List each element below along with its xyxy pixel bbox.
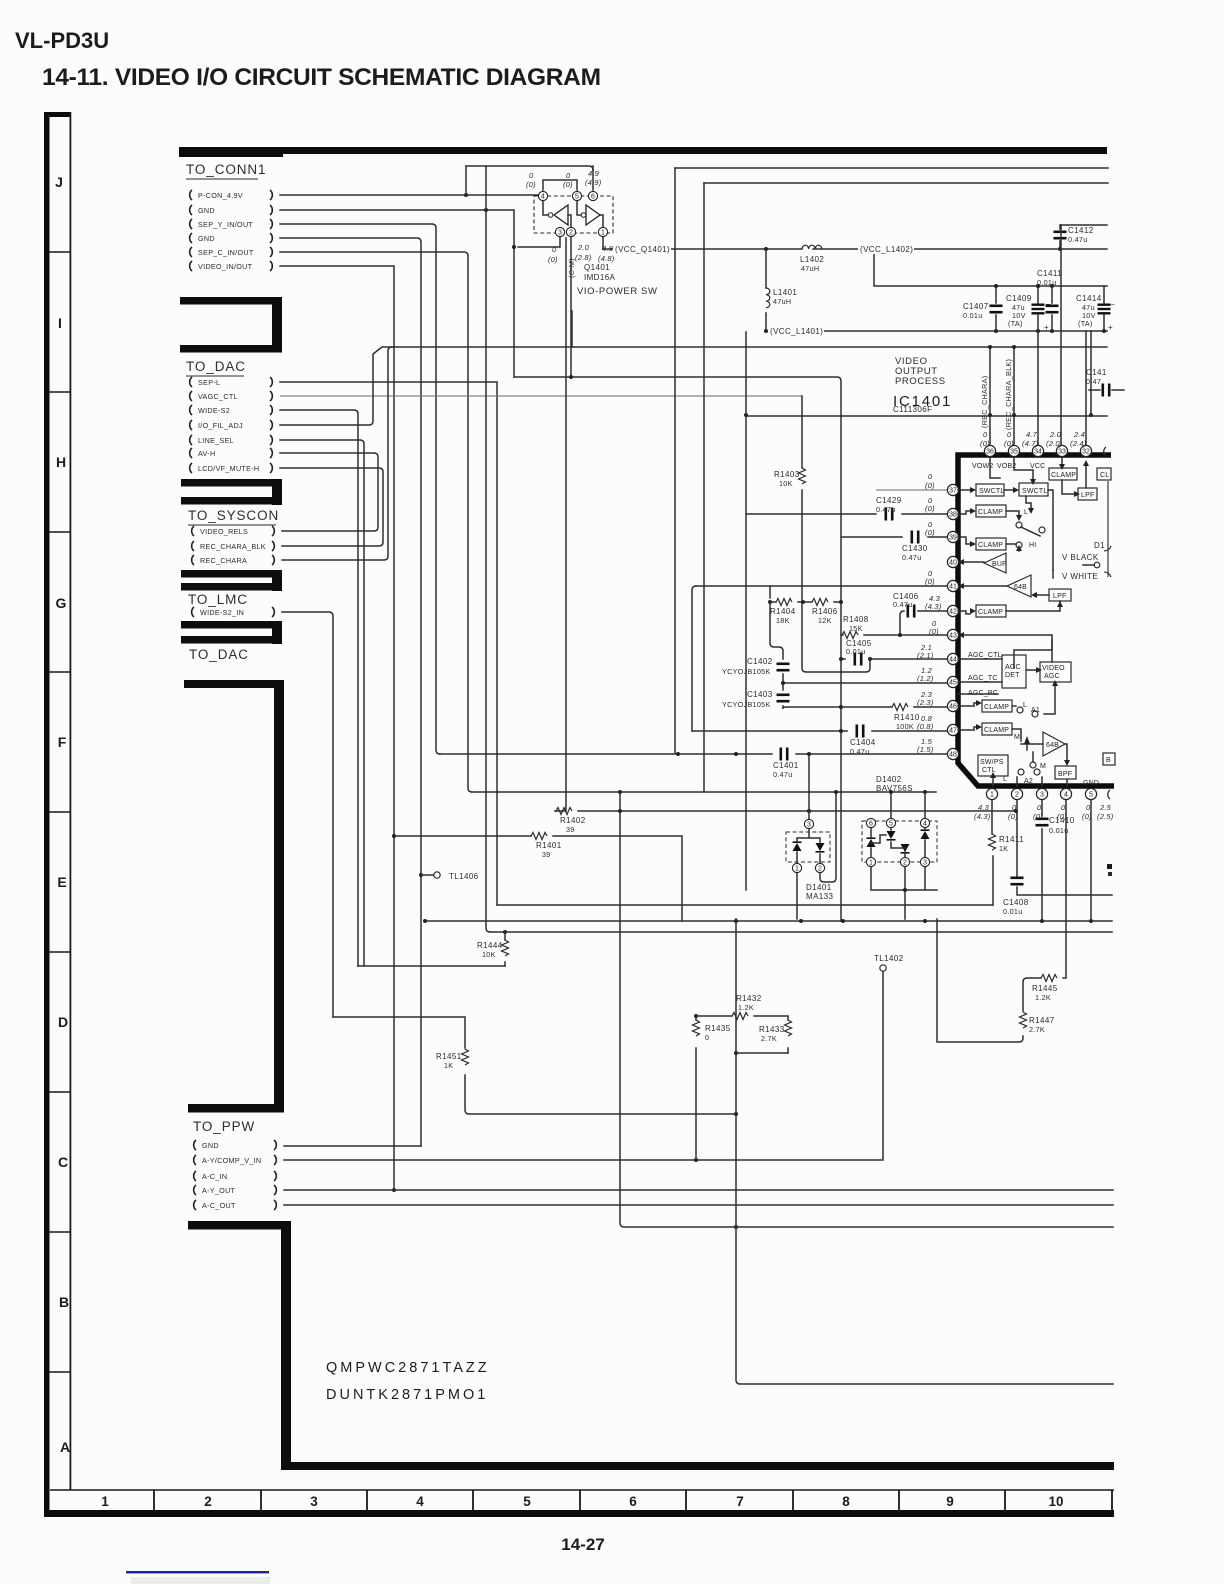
R1401 row y836 <box>392 834 682 921</box>
svg-text:TO_DAC: TO_DAC <box>189 647 249 662</box>
svg-text:(C-M): (C-M) <box>567 258 576 278</box>
svg-text:_: _ <box>1045 296 1051 305</box>
svg-text:3: 3 <box>923 860 927 867</box>
svg-text:32: 32 <box>1082 449 1090 456</box>
resistor R1432 <box>732 994 762 1020</box>
svg-text:4: 4 <box>416 1494 424 1509</box>
svg-text:LPF: LPF <box>1053 593 1066 600</box>
svg-text:SWCTL: SWCTL <box>1022 488 1048 495</box>
wire AV-H to VIDEO_RELS <box>280 453 378 531</box>
R1432 R1433 net <box>696 1016 788 1053</box>
svg-text:3: 3 <box>807 822 811 829</box>
wire long rail y377 <box>514 377 841 921</box>
svg-text:R1451: R1451 <box>436 1052 462 1061</box>
svg-text:R1445: R1445 <box>1032 984 1058 993</box>
svg-text:(0): (0) <box>925 528 935 537</box>
resistor R1451 <box>436 1049 469 1070</box>
svg-text:L: L <box>1024 509 1028 516</box>
left grid ruler column <box>44 112 71 1517</box>
svg-text:A1: A1 <box>1031 707 1040 714</box>
bottom area switches <box>992 778 994 786</box>
pin VIDEO_RELS <box>192 526 275 536</box>
svg-text:0: 0 <box>529 171 534 180</box>
svg-text:2.0: 2.0 <box>1049 430 1062 439</box>
pin LCD/VF_MUTE-H <box>190 463 273 473</box>
svg-text:0: 0 <box>928 472 933 481</box>
svg-text:0.47u: 0.47u <box>902 553 922 562</box>
svg-text:D1: D1 <box>1094 541 1105 550</box>
svg-text:C1402: C1402 <box>747 657 773 666</box>
svg-text:4: 4 <box>923 821 927 828</box>
svg-text:L1402: L1402 <box>800 255 824 264</box>
box partial right bottom <box>1103 753 1115 765</box>
capacitor C1411 <box>1037 269 1062 331</box>
svg-text:45: 45 <box>949 680 957 687</box>
svg-text:CLAMP: CLAMP <box>978 542 1003 549</box>
resistor R1404 <box>770 599 796 626</box>
section label TO_SYSCON <box>188 508 279 525</box>
svg-text:9: 9 <box>946 1494 954 1509</box>
svg-text:5: 5 <box>575 194 579 201</box>
capacitor C1410 <box>1036 816 1075 835</box>
wire GND2 down x436 <box>280 252 472 792</box>
resistor R1447 <box>1020 1012 1055 1034</box>
svg-text:L1401: L1401 <box>773 288 797 297</box>
svg-text:39: 39 <box>566 825 575 834</box>
svg-text:47: 47 <box>949 728 957 735</box>
svg-text:(0): (0) <box>548 255 558 264</box>
pin VAGC_CTL <box>190 391 273 401</box>
long internal vertical <box>1048 490 1053 570</box>
svg-text:+: + <box>1044 323 1049 332</box>
row y731 pin47 net <box>692 729 948 733</box>
wire stub from y166 row to P-CON net <box>465 166 467 195</box>
svg-text:A-Y_OUT: A-Y_OUT <box>202 1186 236 1195</box>
wire WIDE-S2 down x358 <box>280 410 358 966</box>
section label TO_DAC <box>186 359 246 376</box>
svg-text:VIDEO: VIDEO <box>1042 665 1065 672</box>
vertical x620 down to bottom elbow <box>620 792 1113 1229</box>
svg-text:D1402: D1402 <box>876 775 902 784</box>
svg-text:6: 6 <box>869 821 873 828</box>
row y611 pin42 net with C1406 <box>898 611 948 637</box>
svg-text:2.0: 2.0 <box>577 243 590 252</box>
svg-text:GND: GND <box>1083 780 1099 787</box>
svg-text:TO_PPW: TO_PPW <box>193 1119 255 1134</box>
svg-text:SEP-L: SEP-L <box>198 378 220 387</box>
row y921 long <box>423 919 1112 923</box>
svg-text:0.01u: 0.01u <box>1003 907 1023 916</box>
wire vertical x1091 <box>1090 331 1092 415</box>
svg-text:CLAMP: CLAMP <box>984 727 1009 734</box>
svg-text:5: 5 <box>889 821 893 828</box>
row y586 pin41 net <box>696 585 948 587</box>
svg-text:LPF: LPF <box>1081 492 1094 499</box>
transistor pack Q1401 IMD16A VIO-POWER SW <box>466 166 658 379</box>
svg-text:DUNTK2871PMO1: DUNTK2871PMO1 <box>326 1387 488 1403</box>
wire LINE_SEL down x364 <box>280 440 364 966</box>
svg-text:100K: 100K <box>896 722 914 731</box>
TL1402 test point <box>880 965 886 971</box>
svg-text:43: 43 <box>949 633 957 640</box>
wire SEP_C_IN/OUT long vertical x421 <box>280 238 423 1146</box>
svg-text:46: 46 <box>949 704 957 711</box>
pin2 C1408 net <box>1017 794 1112 895</box>
svg-text:(REC_CHARA): (REC_CHARA) <box>980 376 989 428</box>
capacitor C1429 <box>876 496 902 521</box>
svg-text:(0): (0) <box>1057 812 1067 821</box>
svg-text:BUF: BUF <box>992 561 1007 568</box>
CLAMP4 to LPF2 bottom <box>1006 607 1060 611</box>
row y659 pin44 net with C1405 <box>802 490 948 672</box>
svg-text:G: G <box>56 595 67 611</box>
svg-text:D1401: D1401 <box>806 883 832 892</box>
svg-text:0: 0 <box>1037 803 1042 812</box>
svg-text:(2.8): (2.8) <box>575 253 592 262</box>
pin SEP_Y_IN/OUT <box>190 219 273 229</box>
svg-text:14-27: 14-27 <box>561 1535 604 1554</box>
resistor R1445 <box>1032 975 1058 1003</box>
svg-text:TO_SYSCON: TO_SYSCON <box>188 508 279 523</box>
box CLAMP 5 <box>982 700 1012 712</box>
svg-text:TO_LMC: TO_LMC <box>188 592 248 607</box>
svg-text:B: B <box>59 1294 69 1310</box>
box CLAMP 6 <box>982 723 1012 735</box>
svg-text:_: _ <box>1109 296 1115 305</box>
svg-text:C1412: C1412 <box>1068 226 1094 235</box>
wire I/O_FIL_ADJ jog to row y347 <box>280 347 1107 425</box>
svg-text:2.7K: 2.7K <box>761 1034 777 1043</box>
VIDEO OUTPUT PROCESS title <box>893 356 952 414</box>
svg-text:4.7: 4.7 <box>1026 430 1038 439</box>
svg-text:C1430: C1430 <box>902 544 928 553</box>
svg-text:C1411: C1411 <box>1037 269 1062 278</box>
wire rail y286 <box>874 249 1107 288</box>
svg-text:(REC_CHARA_BLK): (REC_CHARA_BLK) <box>1004 359 1013 430</box>
svg-text:3: 3 <box>558 230 562 237</box>
pin GND <box>190 233 273 243</box>
R1402 row y811 <box>555 238 1018 813</box>
svg-text:0: 0 <box>983 430 988 439</box>
IC1401 bottom pins 1-5 <box>974 788 1114 821</box>
svg-text:(0): (0) <box>1082 812 1092 821</box>
diode pair D1401 MA133 <box>786 819 833 901</box>
rotated net label (REC_CHARA) <box>980 345 992 446</box>
svg-text:(4.7): (4.7) <box>1022 439 1039 448</box>
svg-text:64B: 64B <box>1014 584 1027 591</box>
svg-text:48: 48 <box>949 752 957 759</box>
svg-text:(0): (0) <box>526 180 536 189</box>
box CLAMP 4 <box>976 605 1006 617</box>
svg-text:C1408: C1408 <box>1003 898 1029 907</box>
svg-text:TL1402: TL1402 <box>874 954 904 963</box>
row y514 C1429 pin38 net <box>746 513 948 515</box>
svg-text:0: 0 <box>566 171 571 180</box>
resistor R1433 <box>759 1020 792 1043</box>
CLAMP to LPF1 <box>1062 480 1074 494</box>
AGC chain <box>958 659 1036 694</box>
row y932 <box>490 930 1112 934</box>
svg-text:0.01u: 0.01u <box>1049 826 1069 835</box>
svg-text:SW/PS: SW/PS <box>980 759 1004 766</box>
svg-text:(2.0): (2.0) <box>1046 439 1063 448</box>
row y682 pin45 net <box>783 682 948 684</box>
svg-text:(0.8): (0.8) <box>917 722 934 731</box>
svg-text:AGC: AGC <box>1005 664 1021 671</box>
svg-text:MA133: MA133 <box>806 892 833 901</box>
row y966 R1444 bottom <box>358 965 505 967</box>
svg-text:(0): (0) <box>1033 812 1043 821</box>
svg-text:6: 6 <box>629 1494 637 1509</box>
svg-text:(2.1): (2.1) <box>917 651 934 660</box>
svg-text:+: + <box>1108 323 1113 332</box>
wire VIDEO_IN/OUT long vertical x394 <box>280 266 396 1192</box>
svg-text:1: 1 <box>990 792 994 799</box>
resistor R1435 <box>693 1020 731 1042</box>
svg-text:BPF: BPF <box>1058 771 1072 778</box>
wire SEP-L down x497 <box>280 382 497 905</box>
box SWCTL 2 <box>1019 483 1048 496</box>
svg-text:4.3: 4.3 <box>978 803 990 812</box>
svg-text:VIDEO_IN/OUT: VIDEO_IN/OUT <box>198 262 253 271</box>
svg-text:R1435: R1435 <box>705 1024 731 1033</box>
svg-text:C1409: C1409 <box>1006 294 1032 303</box>
svg-text:(VCC_Q1401): (VCC_Q1401) <box>615 245 670 254</box>
svg-text:CLAMP: CLAMP <box>1051 472 1076 479</box>
pin AV-H <box>190 448 273 458</box>
svg-text:(VCC_L1402): (VCC_L1402) <box>860 245 913 254</box>
wire rail y415 <box>744 413 1107 417</box>
svg-text:IMD16A: IMD16A <box>584 273 616 282</box>
top pin verticals 34 33 32 <box>1038 225 1086 446</box>
svg-text:VL-PD3U: VL-PD3U <box>15 28 109 53</box>
resistor R1401 <box>531 833 562 860</box>
svg-text:I/O_FIL_ADJ: I/O_FIL_ADJ <box>198 421 243 430</box>
svg-text:E: E <box>57 874 66 890</box>
svg-text:0.47u: 0.47u <box>876 505 896 514</box>
svg-text:0: 0 <box>1061 803 1066 812</box>
connector bracket 3 (below TO_SYSCON) <box>181 570 282 591</box>
TL1406 stub <box>421 872 440 878</box>
svg-text:V WHITE: V WHITE <box>1062 572 1098 581</box>
svg-text:10: 10 <box>1048 1494 1063 1509</box>
wire A-C_OUT to right edge <box>284 1204 1113 1206</box>
svg-text:5: 5 <box>523 1494 531 1509</box>
svg-text:38: 38 <box>949 512 957 519</box>
svg-text:(0): (0) <box>563 180 573 189</box>
svg-text:GND: GND <box>202 1141 219 1150</box>
svg-text:R1403: R1403 <box>774 470 800 479</box>
row y635 pin43 net with R1408 <box>841 634 948 636</box>
pin REC_CHARA <box>192 555 275 565</box>
svg-text:R1433: R1433 <box>759 1025 785 1034</box>
svg-text:(0): (0) <box>925 504 935 513</box>
svg-text:(1.5): (1.5) <box>917 745 934 754</box>
pin1 R1411 net <box>992 794 993 905</box>
svg-text:B: B <box>1106 757 1111 764</box>
svg-text:TO_DAC: TO_DAC <box>186 359 246 374</box>
section label TO_CONN1 <box>186 162 266 179</box>
svg-text:R1411: R1411 <box>999 835 1024 844</box>
IC1401 internals <box>958 458 1115 787</box>
resistor R1403 <box>774 468 806 488</box>
connector bracket 1 (below TO_CONN1) <box>180 297 282 353</box>
svg-text:1: 1 <box>101 1494 109 1509</box>
svg-text:1K: 1K <box>999 844 1008 853</box>
svg-text:1.2K: 1.2K <box>738 1003 754 1012</box>
wire SEP_Y_IN/OUT down x468 <box>280 224 440 754</box>
resistor R1411 <box>989 834 1025 853</box>
pin A-C_IN <box>194 1171 277 1181</box>
svg-text:R1404: R1404 <box>770 607 796 616</box>
svg-text:(2.3): (2.3) <box>917 698 934 707</box>
svg-text:DET: DET <box>1005 672 1020 679</box>
resistor R1410 <box>783 704 948 732</box>
svg-text:1: 1 <box>601 230 605 237</box>
row y537 C1430 pin39 net <box>842 536 948 538</box>
svg-text:(4.9): (4.9) <box>585 178 602 187</box>
svg-text:WIDE-S2_IN: WIDE-S2_IN <box>200 608 244 617</box>
svg-text:4: 4 <box>541 194 545 201</box>
connector bracket 2 (below TO_DAC) <box>181 479 282 505</box>
svg-text:M: M <box>1040 763 1046 770</box>
SWCTL2 feed from VOW2/VOB2 <box>990 458 1033 479</box>
IC1401 left pins 37-48 <box>917 472 959 760</box>
svg-text:VAGC_CTL: VAGC_CTL <box>198 392 238 401</box>
R1451 bottom route y1114 <box>465 1075 736 1114</box>
svg-text:AV-H: AV-H <box>198 449 215 458</box>
svg-text:A-C_OUT: A-C_OUT <box>202 1201 236 1210</box>
svg-text:F: F <box>58 734 67 750</box>
svg-text:0: 0 <box>1007 430 1012 439</box>
svg-text:33: 33 <box>1058 449 1066 456</box>
svg-text:47uH: 47uH <box>801 264 819 273</box>
svg-text:A2: A2 <box>1024 778 1033 785</box>
svg-text:15K: 15K <box>849 624 863 633</box>
top thick border <box>179 147 1107 154</box>
pin P-CON_4.9V <box>190 190 273 200</box>
wire REC_CHARA up bundle <box>282 347 392 560</box>
svg-text:(TA): (TA) <box>1008 319 1023 328</box>
svg-text:C1414: C1414 <box>1076 294 1102 303</box>
svg-text:REC_CHARA_BLK: REC_CHARA_BLK <box>200 542 266 551</box>
bottom grid ruler row <box>44 1490 1114 1517</box>
svg-text:LINE_SEL: LINE_SEL <box>198 436 234 445</box>
svg-text:PROCESS: PROCESS <box>895 376 946 387</box>
svg-text:SEP_C_IN/OUT: SEP_C_IN/OUT <box>198 248 254 257</box>
box SW/PS CTL <box>978 755 1008 776</box>
svg-text:5: 5 <box>1089 792 1093 799</box>
capacitor C1406 <box>893 592 919 618</box>
row y490 pin37 net <box>876 489 948 491</box>
svg-text:R1401: R1401 <box>536 841 562 850</box>
box AGC DET <box>1002 655 1026 688</box>
vertical x704 from top border <box>703 183 705 792</box>
svg-text:6: 6 <box>591 194 595 201</box>
svg-text:(2.4): (2.4) <box>1070 439 1087 448</box>
wire VCC_Q1401 rail y249 <box>603 247 1107 251</box>
svg-text:YCYOJB105K: YCYOJB105K <box>722 700 771 709</box>
pin SEP_C_IN/OUT <box>190 247 273 257</box>
svg-text:35: 35 <box>1010 449 1018 456</box>
IC1401 top pins 36-32 <box>980 430 1106 457</box>
vertical x746 mid <box>745 332 747 890</box>
row y1017 R1451 net <box>333 1017 465 1048</box>
svg-text:3: 3 <box>1040 792 1044 799</box>
svg-text:SEP_Y_IN/OUT: SEP_Y_IN/OUT <box>198 220 253 229</box>
row y600 R1404 R1406 net <box>770 600 843 604</box>
svg-text:1: 1 <box>795 866 799 873</box>
D1402 connections <box>871 790 937 919</box>
svg-text:(4.3): (4.3) <box>974 812 991 821</box>
svg-text:(4.3): (4.3) <box>925 602 942 611</box>
capacitor C1409 (electrolytic) <box>1006 284 1051 332</box>
svg-text:BAV756S: BAV756S <box>876 784 913 793</box>
svg-text:4.8: 4.8 <box>602 244 614 253</box>
net label (VCC_L1401) <box>768 326 824 336</box>
svg-text:2.5: 2.5 <box>1099 803 1112 812</box>
svg-text:1: 1 <box>869 860 873 867</box>
svg-text:0.01u: 0.01u <box>846 647 866 656</box>
svg-text:TL1406: TL1406 <box>449 872 479 881</box>
capacitor C1401 <box>773 748 799 780</box>
pin REC_CHARA_BLK <box>192 541 275 551</box>
svg-text:A-C_IN: A-C_IN <box>202 1172 227 1181</box>
svg-text:39: 39 <box>542 850 551 859</box>
svg-text:AGC: AGC <box>1044 673 1060 680</box>
R1435 net <box>694 1014 698 1160</box>
svg-text:SWCTL: SWCTL <box>979 488 1005 495</box>
svg-text:AGC_CTL: AGC_CTL <box>968 652 1002 659</box>
svg-text:LCD/VF_MUTE-H: LCD/VF_MUTE-H <box>198 464 259 473</box>
pin GND <box>194 1140 277 1150</box>
svg-text:VCC: VCC <box>1030 463 1045 470</box>
svg-text:R1410: R1410 <box>894 713 920 722</box>
wire VCC_L1401 rail y331 <box>764 313 1107 333</box>
svg-text:D: D <box>58 1014 68 1030</box>
svg-text:Q1401: Q1401 <box>584 263 610 272</box>
internal wiring <box>958 490 1013 730</box>
svg-text:C1429: C1429 <box>876 496 902 505</box>
svg-text:A: A <box>60 1439 70 1455</box>
TO_CONN1 pins <box>190 190 273 271</box>
box SWCTL 1 <box>976 484 1004 496</box>
pin A-C_OUT <box>194 1200 277 1210</box>
pin3 C1410 net <box>1041 794 1043 921</box>
vertical x678 from top border <box>674 168 676 753</box>
svg-text:2: 2 <box>569 230 573 237</box>
svg-text:(0): (0) <box>1008 812 1018 821</box>
wire LCD/VF_MUTE-H to REC_CHARA_BLK <box>280 468 383 546</box>
box CLAMP 2 <box>976 505 1006 517</box>
svg-text:V BLACK: V BLACK <box>1062 553 1099 562</box>
pin A-Y/COMP_V_IN <box>194 1155 277 1165</box>
svg-text:2: 2 <box>1015 792 1019 799</box>
capacitor C1412 <box>1054 225 1094 249</box>
connector bracket 4 (below TO_LMC) <box>181 621 282 644</box>
svg-text:AGC_TC: AGC_TC <box>968 675 998 682</box>
wire A-Y_OUT to right edge <box>284 1189 1113 1191</box>
wire TO_PPW GND up x421 <box>284 1145 421 1147</box>
svg-text:0.47: 0.47 <box>1086 377 1101 386</box>
svg-text:VIO-POWER SW: VIO-POWER SW <box>577 286 658 297</box>
svg-text:HI: HI <box>1029 542 1036 549</box>
wire WIDE-S2_IN down x333 <box>282 612 333 1017</box>
capacitor C1408 <box>1003 877 1029 917</box>
svg-text:34: 34 <box>1034 449 1042 456</box>
svg-text:L: L <box>1003 776 1007 783</box>
svg-text:18K: 18K <box>776 616 790 625</box>
